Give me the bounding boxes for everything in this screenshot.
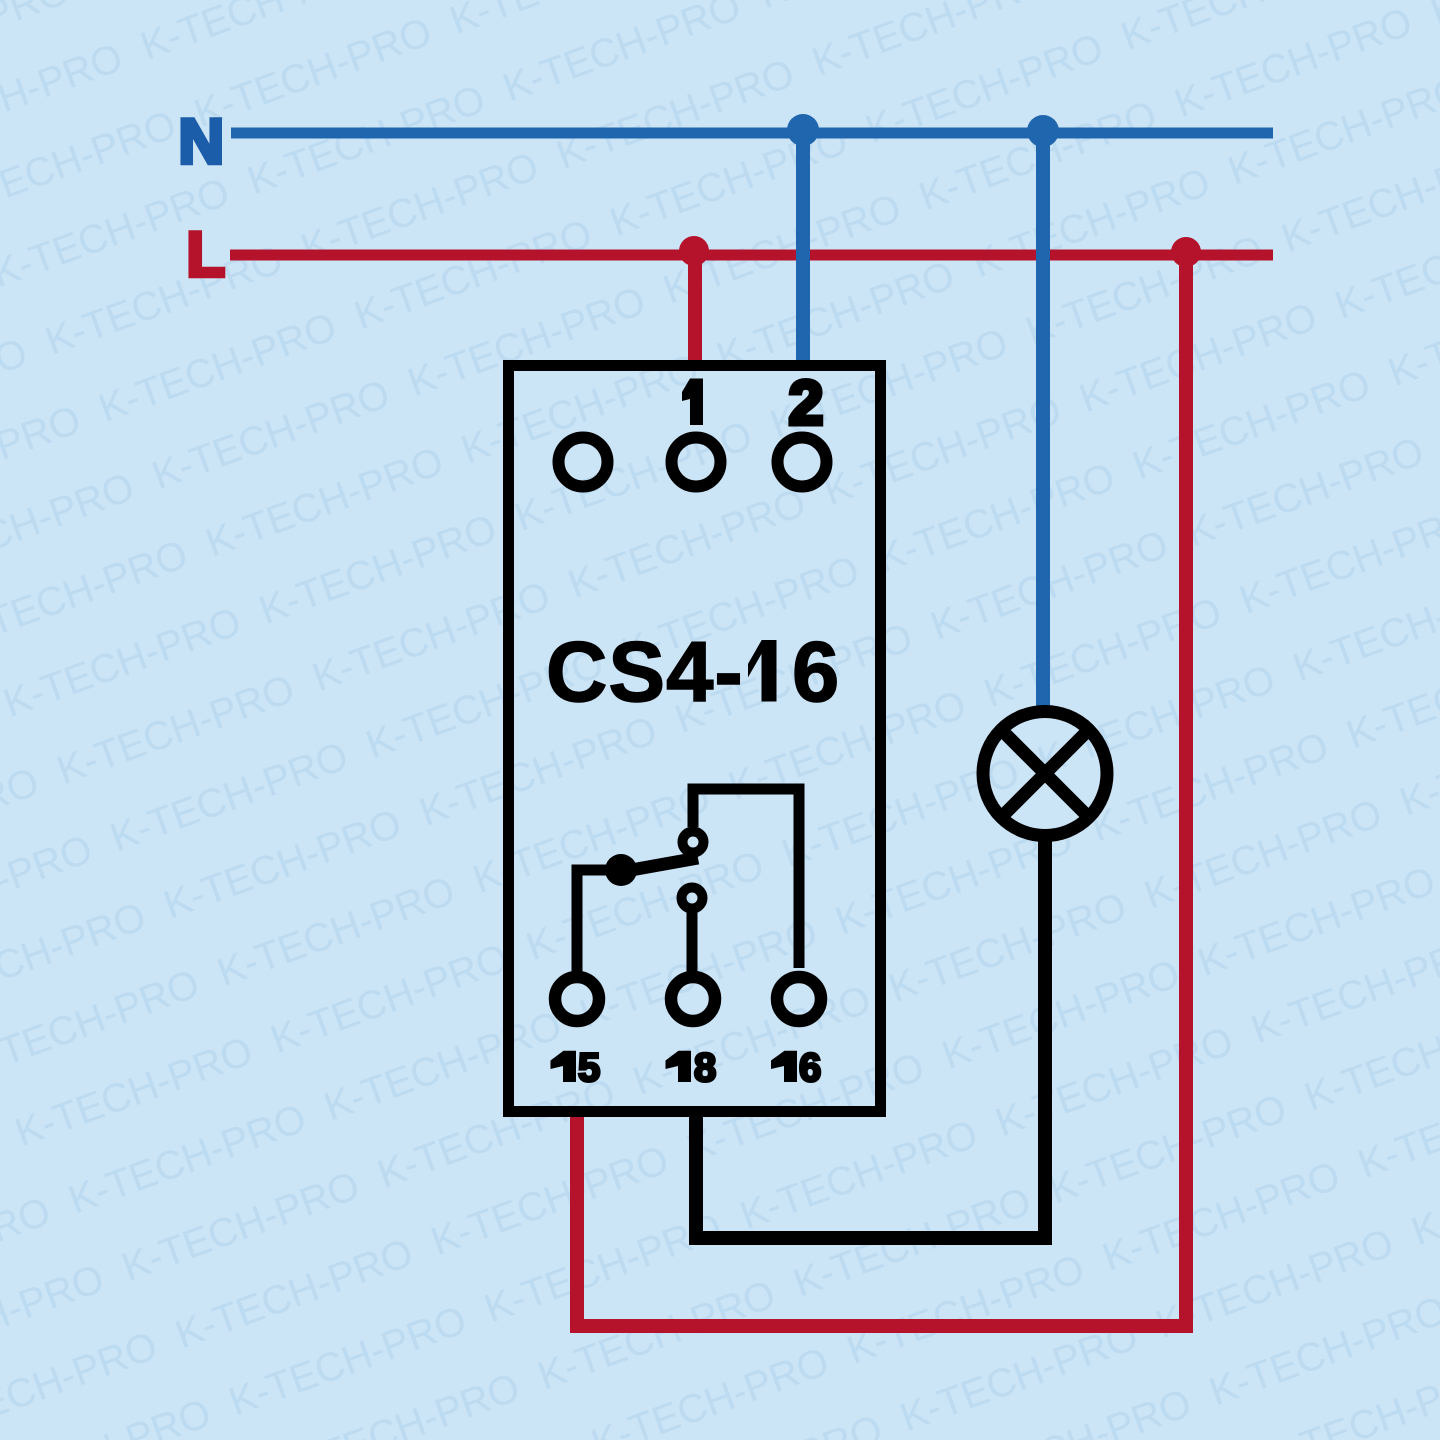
junction dot L/right branch xyxy=(1171,237,1201,267)
terminal circle 16 xyxy=(777,977,821,1021)
junction dot L/terminal1 xyxy=(679,236,709,266)
terminal circle 18 xyxy=(671,977,715,1021)
lamp cross stroke 1 xyxy=(1001,730,1089,818)
wire ring B to terminal 18 xyxy=(687,908,698,972)
svg-text:CS4-: CS4- xyxy=(546,625,744,720)
svg-text:2: 2 xyxy=(789,369,823,438)
wire blue N to terminal 2 xyxy=(796,133,810,370)
svg-text:6: 6 xyxy=(792,625,839,720)
relay box CS4-16 xyxy=(509,366,881,1112)
terminal circle 1 xyxy=(672,438,721,487)
wire blue N to lamp xyxy=(1036,133,1050,707)
junction dot N/terminal2 xyxy=(787,114,819,146)
svg-text:L: L xyxy=(187,220,225,290)
svg-text:5: 5 xyxy=(578,1046,600,1090)
pivot dot xyxy=(605,854,637,886)
terminal circle unlabeled xyxy=(559,438,608,487)
switch arm xyxy=(620,858,698,872)
lamp cross stroke 2 xyxy=(1001,730,1089,818)
wire N bus (blue horizontal) xyxy=(231,128,1273,139)
terminal circle 2 xyxy=(778,438,827,487)
wire L bus (red horizontal) xyxy=(230,250,1273,261)
wire red L down right side to terminal 15 xyxy=(577,255,1186,1326)
pin label 18 xyxy=(666,1051,692,1082)
lamp symbol xyxy=(983,712,1107,836)
terminal circle 15 xyxy=(555,977,599,1021)
pin label 15 xyxy=(551,1051,577,1082)
junction dot N/lamp xyxy=(1027,115,1059,147)
fixed contact ring B xyxy=(682,888,703,909)
svg-text:N: N xyxy=(179,107,225,177)
relay contact bracket (18/16 frame) xyxy=(693,789,799,968)
fixed contact ring A xyxy=(683,832,704,853)
wire pivot to terminal 15 xyxy=(577,870,621,972)
svg-text:8: 8 xyxy=(694,1046,716,1090)
pin label 16 xyxy=(771,1051,797,1082)
svg-text:6: 6 xyxy=(799,1046,821,1090)
pin label 1 xyxy=(682,379,703,426)
wire red L to terminal 1 xyxy=(688,255,702,370)
wire black terminal 18 to lamp xyxy=(696,840,1045,1238)
